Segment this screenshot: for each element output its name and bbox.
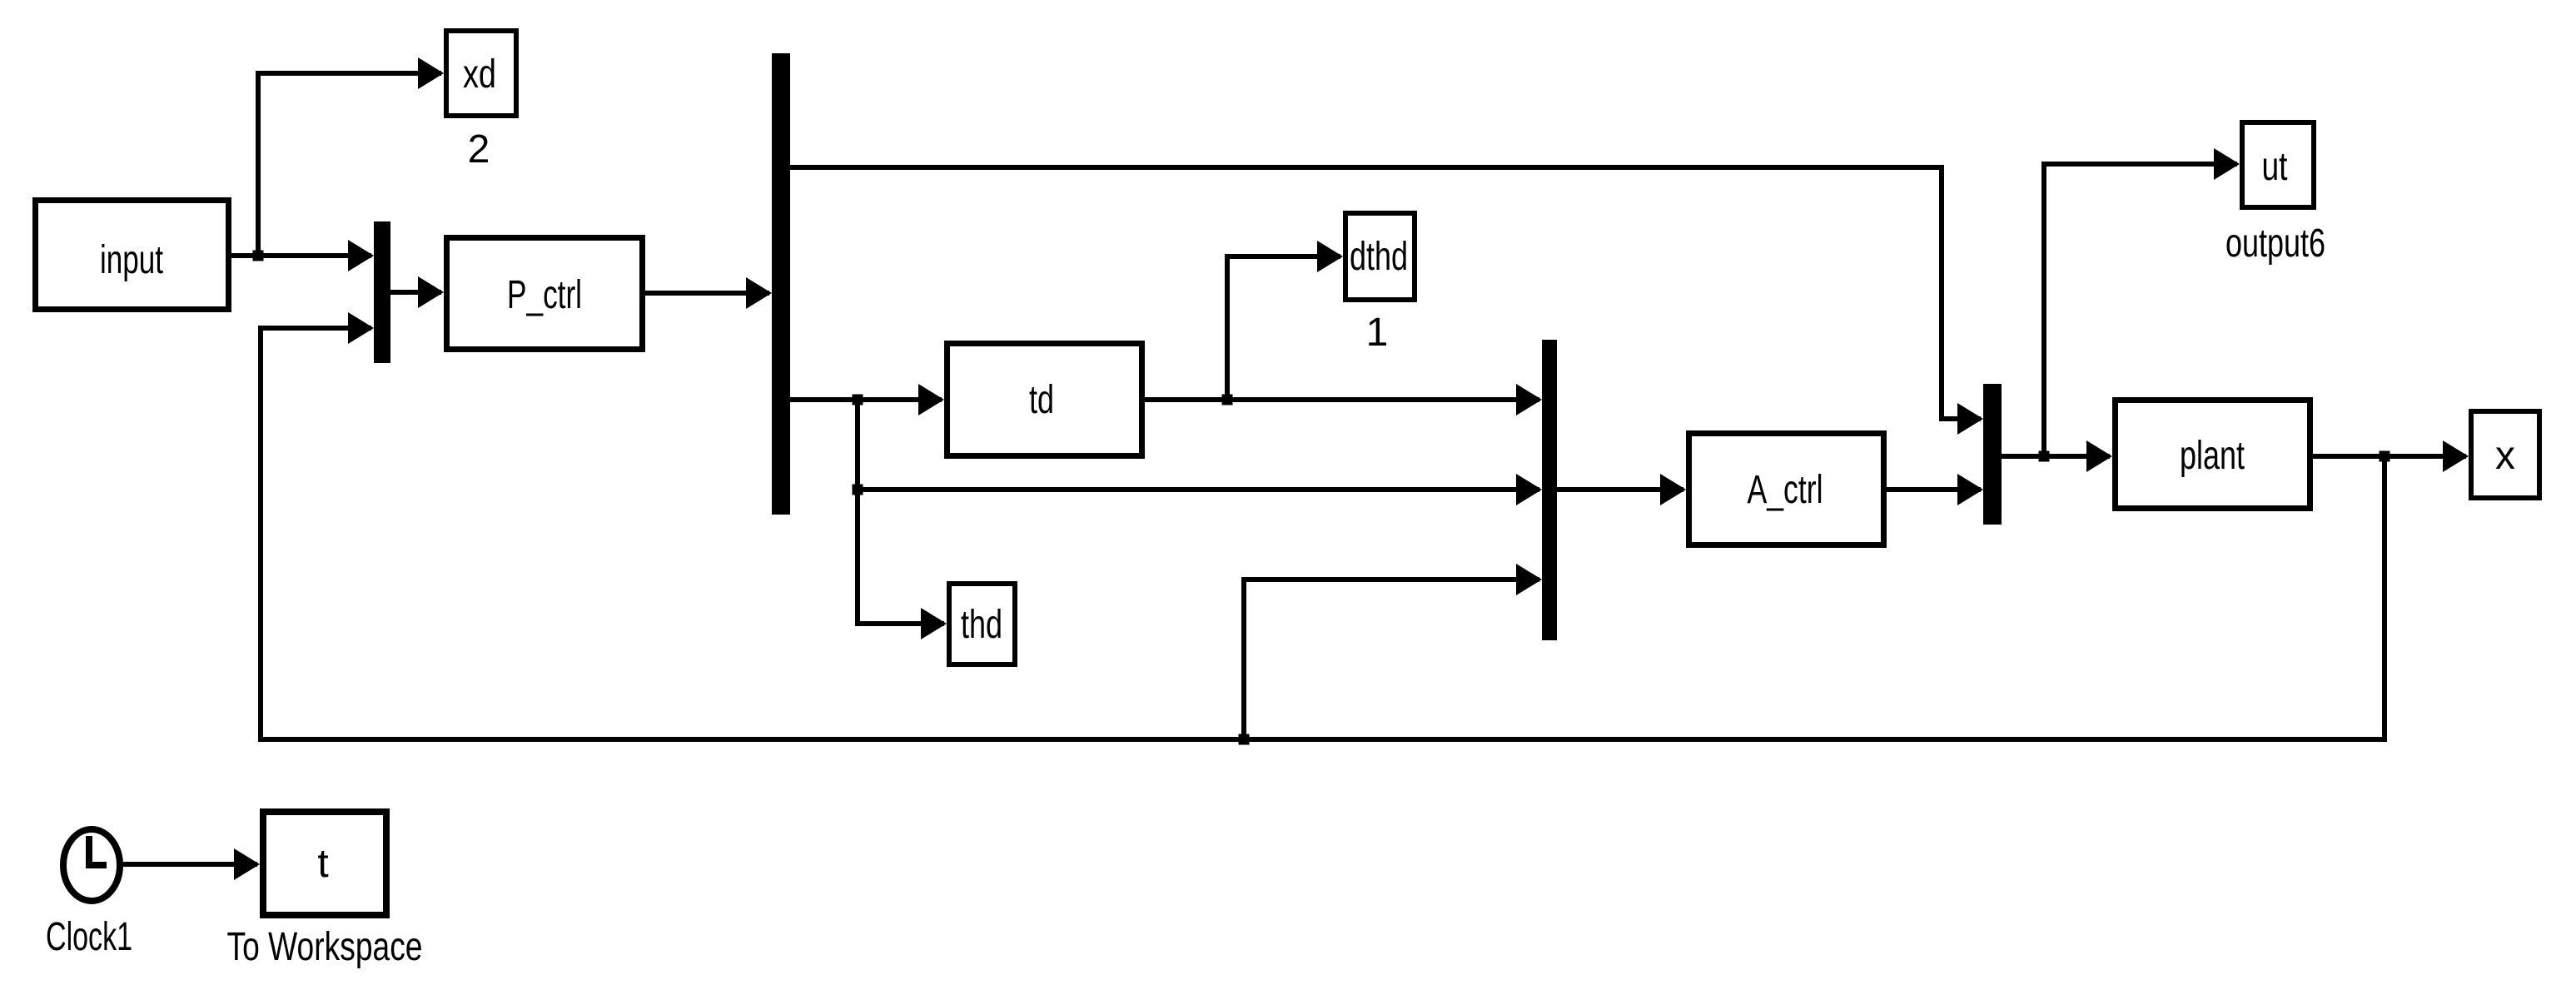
svg-text:2: 2 [468, 127, 490, 172]
svg-text:ut: ut [2262, 145, 2288, 189]
svg-text:plant: plant [2180, 434, 2245, 478]
svg-text:Clock1: Clock1 [46, 915, 132, 959]
svg-text:A_ctrl: A_ctrl [1748, 468, 1823, 512]
svg-text:output6: output6 [2225, 221, 2325, 266]
svg-text:xd: xd [463, 52, 496, 97]
svg-text:t: t [317, 842, 328, 886]
svg-text:To Workspace: To Workspace [227, 925, 423, 969]
svg-text:input: input [100, 238, 163, 282]
svg-text:x: x [2495, 434, 2515, 478]
svg-text:thd: thd [961, 603, 1002, 647]
svg-text:td: td [1029, 378, 1054, 422]
svg-text:1: 1 [1366, 311, 1389, 355]
svg-text:dthd: dthd [1350, 235, 1408, 279]
svg-text:P_ctrl: P_ctrl [507, 273, 582, 317]
